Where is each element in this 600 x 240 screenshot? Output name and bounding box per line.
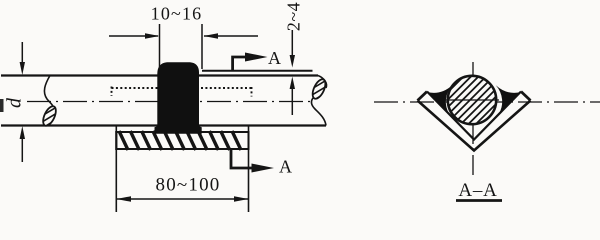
section view horizontal centerline: [374, 101, 600, 103]
section view vertical centerline: [472, 62, 474, 178]
section arrow A top: [233, 48, 281, 70]
weld bead: [155, 62, 202, 134]
angle left end cap: [418, 92, 428, 101]
angle right end cap: [521, 92, 531, 101]
svg-text:d: d: [4, 97, 26, 108]
plate left edge extension: [115, 126, 117, 212]
rod bottom line: [1, 124, 326, 126]
circle centerline cross: [445, 99, 499, 101]
dimension 10~16: [109, 4, 258, 70]
rod section hatching: [380, 65, 543, 160]
scan edge smudge: [0, 99, 4, 112]
dimension 2~4: [284, 2, 304, 115]
label A-A underline: [456, 199, 502, 202]
rod top line: [1, 74, 318, 76]
weld top reference line: [202, 70, 313, 72]
plate with hatching: [116, 131, 248, 150]
plate right edge extension: [248, 126, 250, 212]
svg-text:80~100: 80~100: [156, 175, 221, 196]
right break line: [312, 76, 327, 126]
dimension 80~100: [116, 175, 248, 202]
rod section circle: [448, 76, 496, 124]
rod centerline: [27, 101, 310, 103]
weld fillet left: [427, 85, 452, 114]
dimension d: [4, 42, 26, 162]
left break line: [44, 76, 53, 126]
svg-text:10~16: 10~16: [151, 4, 203, 24]
svg-text:2~4: 2~4: [284, 2, 304, 31]
hidden hole edge dotted right: [201, 87, 252, 97]
section arrow A bottom: [231, 150, 292, 177]
svg-text:A: A: [279, 157, 292, 177]
angle outer V: [418, 101, 531, 151]
weld fillet right: [496, 85, 521, 114]
svg-text:A: A: [268, 48, 281, 68]
right break leaf: [310, 77, 328, 100]
svg-text:A–A: A–A: [458, 180, 497, 201]
left break leaf: [41, 104, 59, 127]
angle inner V: [427, 92, 521, 140]
hidden hole edge dotted left: [112, 87, 159, 97]
